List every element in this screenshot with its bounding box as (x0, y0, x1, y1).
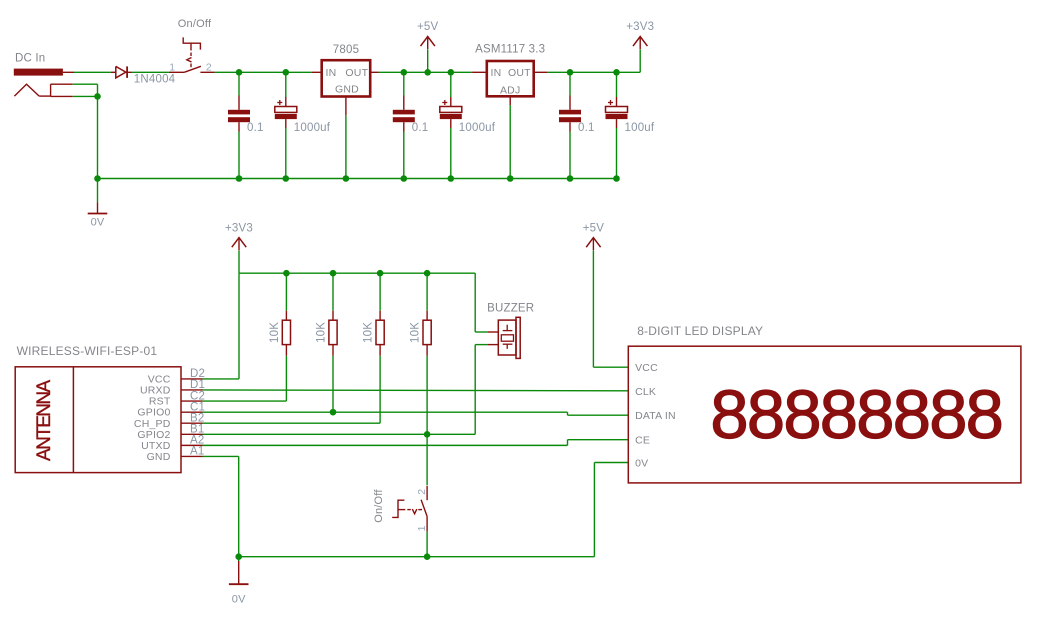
svg-text:1: 1 (169, 61, 175, 73)
svg-text:1000uf: 1000uf (294, 122, 331, 134)
svg-text:10K: 10K (363, 322, 375, 343)
svg-text:1000uf: 1000uf (459, 122, 496, 134)
svg-text:ASM1117 3.3: ASM1117 3.3 (475, 43, 545, 55)
svg-text:+3V3: +3V3 (626, 21, 654, 33)
svg-text:0.1: 0.1 (412, 122, 429, 134)
svg-text:0.1: 0.1 (578, 122, 595, 134)
svg-text:A1: A1 (190, 446, 204, 458)
svg-text:CE: CE (635, 435, 650, 447)
svg-text:8-DIGIT LED DISPLAY: 8-DIGIT LED DISPLAY (637, 324, 763, 338)
svg-text:OUT: OUT (508, 67, 531, 79)
svg-text:On/Off: On/Off (178, 18, 212, 30)
svg-text:BUZZER: BUZZER (487, 303, 534, 315)
svg-text:WIRELESS-WIFI-ESP-01: WIRELESS-WIFI-ESP-01 (17, 344, 158, 358)
svg-text:+5V: +5V (417, 21, 439, 33)
svg-text:IN: IN (491, 67, 502, 79)
svg-text:IN: IN (326, 67, 337, 79)
svg-text:OUT: OUT (345, 67, 368, 79)
svg-text:10K: 10K (316, 322, 328, 343)
svg-text:0V: 0V (232, 594, 246, 606)
svg-text:VCC: VCC (635, 362, 658, 374)
svg-text:+5V: +5V (583, 222, 605, 234)
svg-text:GND: GND (335, 83, 359, 95)
svg-text:ADJ: ADJ (500, 84, 520, 96)
svg-text:1N4004: 1N4004 (134, 74, 176, 86)
svg-text:+3V3: +3V3 (225, 222, 253, 234)
svg-text:1: 1 (416, 525, 428, 531)
svg-text:7805: 7805 (333, 44, 359, 56)
svg-text:ANTENNA: ANTENNA (34, 379, 55, 461)
svg-text:0.1: 0.1 (247, 122, 264, 134)
svg-text:10K: 10K (410, 322, 422, 343)
svg-text:2: 2 (206, 61, 212, 73)
svg-text:10K: 10K (269, 322, 281, 343)
svg-text:GND: GND (147, 451, 171, 463)
svg-text:CLK: CLK (635, 386, 656, 398)
svg-text:100uf: 100uf (625, 122, 655, 134)
svg-text:0V: 0V (635, 457, 648, 469)
svg-text:0V: 0V (91, 217, 105, 229)
svg-text:2: 2 (416, 489, 428, 495)
svg-text:88888888: 88888888 (710, 376, 1002, 453)
svg-text:DC In: DC In (15, 53, 45, 65)
svg-text:DATA IN: DATA IN (635, 410, 676, 422)
svg-text:On/Off: On/Off (373, 489, 385, 523)
